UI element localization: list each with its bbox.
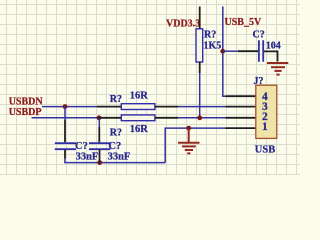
wire ground row to connector pin 1	[165, 128, 225, 163]
svg-text:USBDN: USBDN	[9, 96, 44, 107]
bottom wire joining caps to ground row	[65, 158, 165, 163]
junction: 1K5 pull-up joins USBDP row	[197, 115, 202, 120]
pin 4	[226, 95, 256, 97]
pin wire right of R1	[155, 106, 178, 108]
ground (center, below connector row)	[178, 129, 200, 154]
pin wire into cap	[238, 50, 258, 52]
connector J? body	[256, 85, 277, 138]
wire: 1K5 bottom pin down to USBDP row	[199, 62, 201, 73]
svg-text:104: 104	[266, 41, 281, 52]
svg-text:C?: C?	[253, 29, 265, 40]
pin 1	[226, 127, 256, 129]
wire from junction to cap C? 104	[223, 50, 238, 52]
wire USBDP row	[32, 117, 98, 119]
pin 3	[226, 106, 256, 108]
ground (right, near C? 104)	[267, 63, 288, 75]
svg-text:R?: R?	[110, 127, 122, 138]
pin wire right of R2	[155, 117, 178, 119]
svg-text:16R: 16R	[130, 124, 149, 135]
svg-text:USB: USB	[255, 145, 275, 156]
plates	[89, 143, 110, 149]
pin 2	[226, 117, 256, 119]
resistor R? 16R (lower)	[121, 115, 155, 121]
svg-text:R?: R?	[204, 29, 216, 40]
pin wire	[64, 120, 66, 142]
svg-text:33nF: 33nF	[108, 151, 131, 162]
junction on USBDN row	[63, 104, 68, 109]
pin wire left of R2	[97, 117, 121, 119]
junction on USBDP row (cap C2 tap)	[97, 115, 102, 120]
svg-text:33nF: 33nF	[76, 151, 99, 162]
svg-text:1: 1	[262, 121, 268, 133]
svg-text:USB_5V: USB_5V	[225, 17, 262, 28]
pin wire left of R1	[97, 106, 121, 108]
svg-text:R?: R?	[110, 94, 122, 105]
svg-text:J?: J?	[254, 76, 264, 87]
capacitor C? 33nF (left)	[55, 107, 99, 163]
pin wire	[98, 127, 100, 142]
svg-text:1K5: 1K5	[204, 40, 222, 51]
junction at USB_5V / cap branch	[220, 49, 225, 54]
wire from cap to right ground	[264, 51, 278, 61]
junction cap C2 bottom	[97, 160, 102, 165]
wire to connector pin 2	[178, 117, 226, 119]
plates	[55, 143, 76, 149]
capacitor C? 33nF (right)	[89, 118, 130, 163]
wire USBDN row	[42, 106, 97, 108]
wire to connector pin 3	[178, 106, 226, 108]
capacitor C? 104	[253, 29, 281, 61]
wire VDD3.3 vertical	[199, 7, 201, 30]
junction on ground row	[186, 126, 191, 131]
wire tap down from USBDP row	[98, 118, 100, 127]
resistor R? 1K5	[196, 29, 203, 62]
pin wire bottom	[64, 150, 66, 159]
svg-text:VDD3.3: VDD3.3	[166, 19, 200, 30]
wire tap down from USBDN row	[64, 107, 66, 120]
wire	[199, 73, 201, 118]
resistor R? 16R (upper)	[121, 104, 155, 110]
pin wire bottom	[99, 150, 101, 163]
svg-text:16R: 16R	[130, 90, 149, 101]
connector J? pins (black stubs)	[226, 96, 256, 128]
wire USB_5V vertical down to pin4 corner	[223, 7, 226, 97]
svg-text:USBDP: USBDP	[9, 107, 42, 118]
